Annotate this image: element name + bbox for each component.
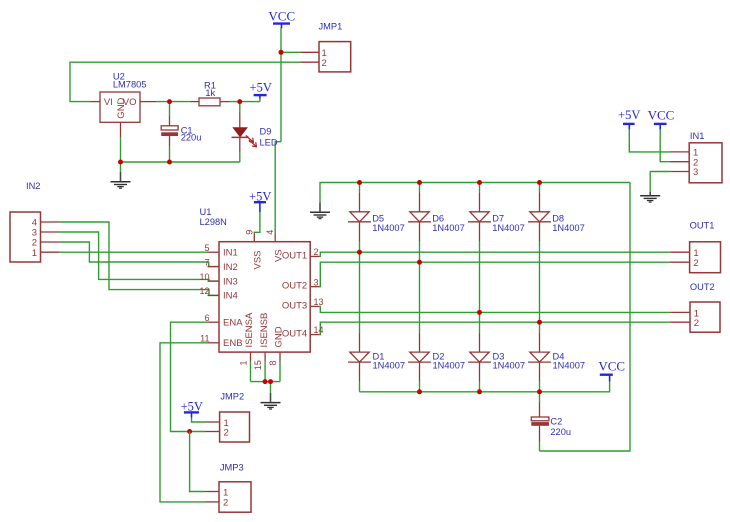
diode D1 1N4007 <box>348 332 371 381</box>
wire junction to JMP3 pin 1 <box>190 432 205 492</box>
label C1 value 220u <box>181 133 202 143</box>
junction column 2 bottom rail <box>417 389 422 394</box>
diode D5 1N4007 <box>348 192 371 242</box>
svg-text:VI: VI <box>104 97 113 108</box>
wire IN2 pin 2 to U1 IN2 <box>59 242 219 267</box>
wire U2 VO to R1 and C1 branch <box>156 102 191 117</box>
svg-text:+5V: +5V <box>181 400 203 414</box>
svg-text:10: 10 <box>199 272 209 282</box>
svg-text:15: 15 <box>253 360 263 370</box>
svg-text:U1: U1 <box>200 207 212 217</box>
svg-text:1N4007: 1N4007 <box>372 223 405 233</box>
svg-text:2: 2 <box>314 247 319 257</box>
svg-text:LED: LED <box>260 137 278 147</box>
svg-text:2: 2 <box>322 58 327 69</box>
svg-text:IN2: IN2 <box>26 181 40 191</box>
label JMP3 name <box>220 462 244 472</box>
wire OUT2 row from U1 pin 3 to OUT1 connector pin 2 <box>319 262 670 287</box>
label R1 value 1k <box>205 88 215 98</box>
voltage regulator U2 LM7805 <box>91 92 157 137</box>
svg-text:VCC: VCC <box>648 108 675 123</box>
label OUT2 name <box>690 282 715 292</box>
svg-text:1: 1 <box>238 360 248 365</box>
svg-text:2: 2 <box>694 318 699 329</box>
connector OUT1 <box>670 242 720 273</box>
junction column 1 top rail <box>357 180 362 185</box>
supply +5V above U1 VSS <box>249 190 271 212</box>
label D1 value 1N4007 <box>373 361 406 371</box>
wire +5V to IN1 pin 1 <box>629 129 670 152</box>
wire right ground line down to C2 bottom <box>540 183 631 452</box>
svg-text:11: 11 <box>200 334 209 344</box>
svg-text:JMP3: JMP3 <box>220 462 244 472</box>
connector IN1 <box>670 143 722 183</box>
label D9 value LED <box>260 137 278 147</box>
diode D3 1N4007 <box>468 332 491 381</box>
connector JMP1 <box>301 42 351 72</box>
label D4 name <box>553 352 565 362</box>
svg-text:2: 2 <box>224 428 229 439</box>
junction column 2 top rail <box>417 180 422 185</box>
ground IN1 pin 3 <box>640 192 660 202</box>
wire IN2 pin 3 to U1 IN3 <box>59 232 219 281</box>
svg-text:9: 9 <box>244 230 254 235</box>
svg-text:4: 4 <box>265 230 275 235</box>
label D7 value 1N4007 <box>492 223 525 233</box>
label IN2 name <box>26 181 40 191</box>
svg-text:ISENSA: ISENSA <box>244 312 255 348</box>
supply VCC at IN1 <box>648 108 675 130</box>
ground below U1 <box>261 393 281 409</box>
label D4 value 1N4007 <box>553 361 586 371</box>
wire OUT3 row from U1 pin 13 to OUT2 connector pin 1 <box>319 306 670 312</box>
label OUT1 name <box>690 220 715 230</box>
supply VCC bottom right <box>598 358 625 381</box>
junction column 4 OUT line <box>537 320 542 325</box>
ground top rail of diode matrix <box>310 203 330 219</box>
wire OUT1 row from U1 pin 2 to OUT1 connector pin 1 <box>319 252 670 256</box>
svg-text:1N4007: 1N4007 <box>373 361 406 371</box>
label C2 name <box>550 416 562 426</box>
svg-text:ISENSB: ISENSB <box>259 313 270 348</box>
label D6 name <box>432 214 444 224</box>
svg-text:VS: VS <box>273 249 284 262</box>
H-bridge driver U1 L298N <box>199 230 323 370</box>
junction VCC/JMP1 <box>279 50 284 55</box>
wire IN2 pin 1 to U1 IN1 <box>59 251 208 253</box>
supply +5V at IN1 <box>618 108 640 129</box>
junction column 4 top rail <box>537 180 542 185</box>
diode D2 1N4007 <box>408 332 431 381</box>
junction column 4 bottom rail <box>537 389 542 394</box>
connector JMP2 <box>205 412 250 442</box>
wire diode column 3 net segments <box>479 183 481 392</box>
svg-text:LM7805: LM7805 <box>113 80 147 90</box>
label U1 value L298N <box>200 217 227 227</box>
label D3 name <box>493 352 505 362</box>
ground below U2 local rail <box>111 172 131 188</box>
wire OUT4 row from U1 pin 14 to OUT2 connector pin 2 <box>319 322 670 334</box>
svg-text:IN2: IN2 <box>223 262 238 273</box>
svg-text:ENA: ENA <box>223 318 243 329</box>
svg-text:1N4007: 1N4007 <box>553 361 586 371</box>
label D1 name <box>373 352 385 362</box>
svg-text:5: 5 <box>204 243 209 253</box>
label JMP1 name <box>319 22 343 32</box>
svg-text:1: 1 <box>32 248 37 259</box>
wire diode column 4 net segments <box>539 183 541 392</box>
label U2 name <box>113 71 125 81</box>
svg-text:3: 3 <box>693 167 698 178</box>
svg-text:12: 12 <box>199 286 209 296</box>
svg-text:OUT4: OUT4 <box>282 329 307 340</box>
svg-text:7: 7 <box>204 257 209 267</box>
svg-text:220u: 220u <box>550 427 571 437</box>
LED D9 <box>232 113 257 153</box>
wire U1 ENA to JMP2 pin 2 <box>171 322 208 431</box>
svg-text:OUT2: OUT2 <box>282 281 307 292</box>
svg-text:1N4007: 1N4007 <box>433 361 466 371</box>
resistor R1 <box>191 98 230 106</box>
svg-text:+5V: +5V <box>249 190 271 204</box>
svg-text:IN3: IN3 <box>223 276 238 287</box>
label D8 name <box>552 214 564 224</box>
svg-text:L298N: L298N <box>200 217 227 227</box>
svg-text:+5V: +5V <box>250 81 272 95</box>
svg-text:D9: D9 <box>260 127 272 137</box>
label U2 value LM7805 <box>113 80 147 90</box>
wire bottom VCC rail of diode matrix <box>360 381 610 392</box>
diode D7 1N4007 <box>468 192 491 242</box>
wire diode column 2 net segments <box>419 183 421 392</box>
label D9 name <box>260 127 272 137</box>
wire U1 ISENSA ISENSB GND to ground <box>251 361 281 393</box>
junction R1/+5V/D9 <box>237 99 242 104</box>
junction column 3 bottom rail <box>477 389 482 394</box>
svg-text:6: 6 <box>204 313 209 323</box>
svg-text:OUT3: OUT3 <box>282 300 307 311</box>
supply VCC top <box>268 8 295 28</box>
svg-text:1N4007: 1N4007 <box>492 223 525 233</box>
junction column 3 top rail <box>477 180 482 185</box>
svg-text:GND: GND <box>274 326 285 347</box>
label D3 value 1N4007 <box>493 361 526 371</box>
connector IN2 <box>10 212 59 262</box>
svg-text:+5V: +5V <box>618 108 640 122</box>
wire +5V to U1 VSS <box>254 212 260 235</box>
svg-text:OUT1: OUT1 <box>282 250 307 261</box>
label D2 name <box>433 352 445 362</box>
diode D4 1N4007 <box>528 332 551 381</box>
junction ground stub <box>268 379 273 384</box>
label D5 name <box>372 214 384 224</box>
svg-text:220u: 220u <box>181 133 202 143</box>
svg-text:2: 2 <box>223 498 228 509</box>
wire local ground rail under U2: C1, D9 cathode, U2 GND <box>121 137 240 172</box>
wire top ground rail of diode matrix <box>320 183 630 203</box>
svg-text:1N4007: 1N4007 <box>493 361 526 371</box>
junction column 3 OUT line <box>477 310 482 315</box>
svg-text:2: 2 <box>693 258 698 269</box>
junction VO/C1/R1 <box>167 99 172 104</box>
label D2 value 1N4007 <box>433 361 466 371</box>
svg-text:C2: C2 <box>550 416 562 426</box>
svg-text:IN1: IN1 <box>223 248 238 259</box>
wire C2 pins <box>539 392 541 451</box>
wire IN1 pin 3 to ground <box>650 172 670 193</box>
svg-text:ENB: ENB <box>223 338 243 349</box>
label D5 value 1N4007 <box>372 223 405 233</box>
supply +5V at JMP2 <box>181 400 203 418</box>
svg-text:OUT1: OUT1 <box>690 220 715 230</box>
wire diode column 1 net segments <box>359 183 361 392</box>
diode D8 1N4007 <box>528 192 551 242</box>
svg-text:14: 14 <box>314 325 324 335</box>
junction C1/ground rail <box>167 160 172 165</box>
label R1 name <box>204 81 216 91</box>
wire VCC net from supply to JMP1 pin 1 and down to U1 VS <box>275 28 300 235</box>
svg-text:VCC: VCC <box>598 358 625 373</box>
svg-text:IN1: IN1 <box>690 131 704 141</box>
label C1 name <box>181 125 193 135</box>
wire JMP1 pin 2 to U2 VI <box>70 62 301 101</box>
label U1 name <box>200 207 212 217</box>
svg-text:1k: 1k <box>205 88 215 98</box>
wire R1 to +5V and LED D9 anode <box>230 98 260 113</box>
junction ISENSB/ground rail <box>263 379 268 384</box>
label D7 name <box>492 214 504 224</box>
wire IN2 pin 4 to U1 IN4 <box>59 222 219 295</box>
label IN1 name <box>690 131 704 141</box>
label C2 value 220u <box>550 427 571 437</box>
svg-text:GND: GND <box>116 97 127 118</box>
label D8 value 1N4007 <box>552 223 585 233</box>
wire +5V to JMP2 pin 1 <box>192 417 206 422</box>
svg-text:1N4007: 1N4007 <box>552 223 585 233</box>
wire U1 ENB to JMP3 pin 2 <box>160 343 208 502</box>
svg-text:1N4007: 1N4007 <box>432 223 465 233</box>
svg-text:13: 13 <box>314 297 324 307</box>
label D6 value 1N4007 <box>432 223 465 233</box>
junction U2 GND/ground <box>118 160 123 165</box>
svg-text:JMP1: JMP1 <box>319 22 343 32</box>
diode D6 1N4007 <box>408 192 431 242</box>
capacitor C2 220u polarized <box>531 402 549 442</box>
connector OUT2 <box>670 302 720 332</box>
junction column 1 OUT line <box>357 250 362 255</box>
svg-text:3: 3 <box>314 277 319 287</box>
svg-text:VSS: VSS <box>253 250 264 269</box>
supply +5V near R1 <box>250 81 272 99</box>
svg-text:OUT2: OUT2 <box>690 282 715 292</box>
connector JMP3 <box>205 482 251 512</box>
label JMP2 name <box>220 391 244 401</box>
junction ENA/JMP2/JMP3 <box>187 429 192 434</box>
wire VCC to IN1 pin 2 <box>660 129 670 162</box>
svg-text:8: 8 <box>268 360 278 365</box>
junction column 2 OUT line <box>417 260 422 265</box>
svg-text:JMP2: JMP2 <box>220 391 244 401</box>
svg-text:IN4: IN4 <box>223 291 238 302</box>
svg-text:VCC: VCC <box>268 8 295 23</box>
capacitor C1 220u polarized <box>161 117 178 147</box>
